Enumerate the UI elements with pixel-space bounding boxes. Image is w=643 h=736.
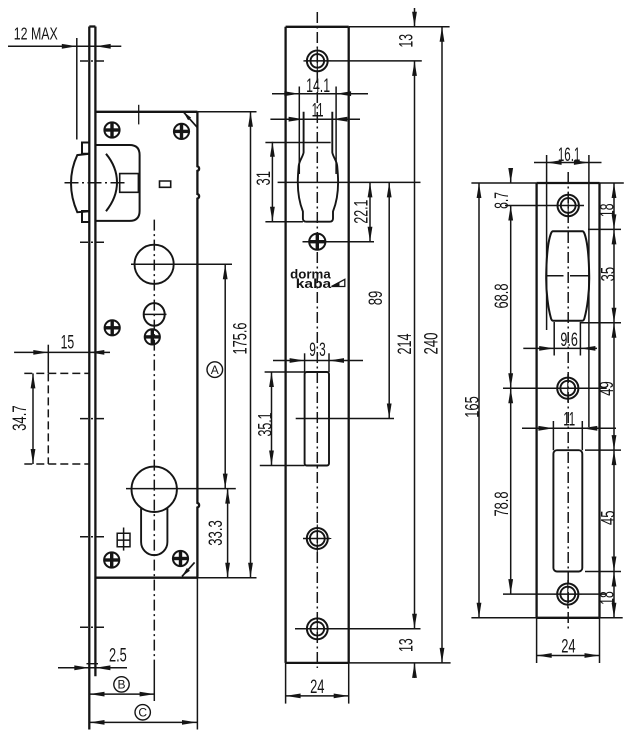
extension deadbolt top right: [585, 449, 621, 451]
svg-text:18: 18: [597, 204, 618, 218]
svg-text:78.8: 78.8: [492, 492, 513, 517]
svg-text:8.7: 8.7: [492, 192, 513, 209]
dimension 11 line: [270, 118, 360, 120]
dimension 9.3 line: [273, 360, 363, 362]
strike latch opening: [546, 231, 589, 321]
oval spindle hole: [144, 303, 165, 326]
strike deadbolt opening: [553, 450, 582, 571]
svg-text:240: 240: [421, 333, 442, 355]
euro cylinder keyway: [141, 508, 167, 555]
euro cylinder circle: [132, 467, 177, 512]
faceplate hole centerline marks: [80, 60, 104, 62]
extension latch opening top right: [588, 228, 621, 230]
latch spring box: [120, 174, 139, 193]
svg-text:11: 11: [563, 410, 575, 431]
deadbolt thrown hidden outline: [24, 372, 89, 374]
dimension 34.7 line: [32, 373, 34, 464]
dimension C line: [90, 721, 198, 723]
dimension 33.3 line: [227, 489, 229, 578]
datum A circle: [207, 362, 223, 378]
svg-text:22.1: 22.1: [352, 200, 373, 224]
strike latch opening center line: [547, 275, 564, 277]
latch center line: [278, 181, 421, 183]
strike plate top edge: [537, 182, 600, 184]
dimension 15 line: [14, 351, 110, 353]
screw middle left: [105, 320, 120, 335]
strike screw hole top: [554, 192, 582, 220]
dimension A line: [224, 264, 226, 488]
position tick on case top: [138, 105, 140, 125]
deadbolt opening front view: [305, 372, 329, 466]
svg-text:A: A: [211, 363, 219, 377]
extension lines 9.6: [553, 322, 555, 356]
set screw detail: [117, 533, 130, 546]
dimension 16.1 line: [534, 162, 602, 164]
latch centerline: [65, 182, 127, 184]
svg-text:89: 89: [366, 291, 387, 306]
svg-text:35: 35: [598, 267, 619, 282]
faceplate bottom end: [87, 663, 99, 665]
dimension 35.1 line: [271, 372, 273, 466]
countersunk hole third: [303, 525, 331, 553]
svg-text:9.6: 9.6: [560, 330, 578, 351]
svg-text:214: 214: [395, 333, 416, 354]
svg-text:165: 165: [462, 396, 483, 418]
datum C circle: [135, 705, 150, 720]
screw top right: [174, 124, 189, 139]
faceplate front top edge: [286, 26, 349, 28]
cylinder center line: [126, 488, 236, 490]
faceplate front bottom edge: [286, 662, 349, 664]
lock case top edge: [95, 111, 197, 113]
vertical centerline of lock: [153, 220, 155, 668]
svg-text:34.7: 34.7: [10, 405, 31, 431]
dimension 22.1 line: [369, 182, 371, 241]
svg-text:13: 13: [396, 34, 417, 48]
datum B circle: [114, 677, 129, 692]
faceplate front view left edge: [284, 27, 286, 663]
screw top left: [104, 122, 119, 137]
dimension 31 line: [271, 142, 273, 222]
strike plate bottom edge: [537, 617, 600, 619]
faceplate vertical centerline: [316, 12, 318, 668]
bevel mark top right: [183, 112, 197, 128]
phillips screw front view: [309, 234, 325, 250]
svg-text:31: 31: [254, 171, 275, 186]
svg-text:68.8: 68.8: [492, 284, 513, 309]
dimension 14.1 line: [272, 93, 368, 95]
dimension 13 and 214 line: [414, 8, 416, 27]
extension line deadbolt face: [47, 345, 49, 373]
svg-text:12 MAX: 12 MAX: [14, 24, 58, 44]
extension line latch face: [76, 38, 78, 140]
dimension B line: [90, 693, 155, 695]
bevel mark bottom right: [182, 562, 195, 576]
dimension 240 line: [441, 27, 443, 663]
dimension 9.6 line: [523, 347, 597, 349]
svg-text:45: 45: [598, 511, 619, 526]
oval center line: [143, 313, 166, 315]
small rectangular hole: [160, 181, 171, 187]
right dimension chain line: [613, 183, 615, 618]
svg-text:kaba: kaba: [296, 277, 333, 291]
dimension 175.6 line: [250, 112, 252, 578]
extension lines 9.3: [304, 353, 306, 372]
extension lines 16.1: [546, 155, 548, 330]
lock case bottom edge: [95, 577, 197, 579]
follower hub circle: [135, 245, 174, 284]
svg-text:24: 24: [561, 637, 576, 658]
latch bevel curve: [106, 154, 117, 211]
extension lines 14.1: [298, 87, 300, 175]
deadbolt center line: [296, 418, 394, 420]
svg-text:15: 15: [61, 333, 75, 354]
dimension 24 right line: [537, 655, 600, 657]
faceplate front view right edge: [348, 27, 350, 663]
svg-text:14.1: 14.1: [306, 76, 330, 97]
strike screw hole middle: [554, 374, 582, 402]
svg-text:13: 13: [396, 638, 417, 652]
svg-text:33.3: 33.3: [206, 520, 227, 546]
screw bottom right: [173, 551, 188, 566]
extension line latch bottom: [265, 221, 303, 223]
extension lines 35.1: [265, 371, 305, 373]
latch guide flange upper: [82, 143, 89, 154]
svg-text:175.6: 175.6: [230, 323, 251, 355]
svg-text:B: B: [117, 678, 125, 692]
svg-text:9.3: 9.3: [309, 340, 326, 361]
countersunk hole bottom: [303, 615, 331, 643]
svg-text:16.1: 16.1: [558, 145, 581, 166]
extension latch opening bottom right: [580, 322, 621, 324]
svg-text:35.1: 35.1: [255, 413, 276, 437]
dimension 8.7 68.8 78.8 line: [510, 168, 512, 183]
screw on centerline: [145, 329, 160, 344]
latch guide flange lower: [82, 211, 89, 222]
extension lines 11 right: [552, 421, 554, 450]
strike plate centerline: [567, 172, 569, 632]
svg-text:18: 18: [597, 591, 618, 605]
lock faceplate side view - back line: [94, 27, 96, 677]
faceplate top end: [89, 25, 95, 27]
extension deadbolt bottom right: [585, 571, 621, 573]
dimension 2.5 line: [58, 667, 127, 669]
svg-text:11: 11: [312, 101, 324, 122]
latch bolt body: [95, 145, 139, 221]
lock case right edge with clip notches: [197, 112, 199, 578]
svg-text:2.5: 2.5: [109, 646, 127, 667]
strike plate left edge: [535, 183, 537, 618]
dimension 11 right line: [522, 427, 616, 429]
follower center line: [131, 263, 232, 265]
lock faceplate side view - front line: [88, 27, 90, 730]
screw bottom left: [104, 552, 119, 567]
svg-text:24: 24: [310, 677, 325, 698]
countersunk hole top: [303, 47, 331, 75]
dimension 165 line: [478, 183, 480, 618]
dimension 24 line middle: [286, 695, 349, 697]
dimension 12 MAX line: [8, 45, 121, 47]
latch bolt front view: [298, 112, 338, 222]
dimension 89 line: [388, 182, 390, 418]
extension line latch top: [265, 142, 330, 144]
latch bolt head: [71, 154, 89, 212]
svg-text:C: C: [138, 706, 147, 720]
strike plate right edge: [598, 183, 600, 618]
strike screw hole bottom: [554, 580, 582, 608]
